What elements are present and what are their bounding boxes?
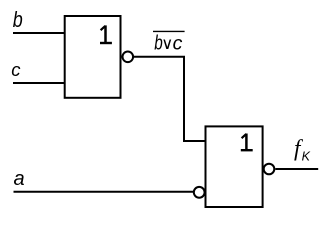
svg-text:c: c — [11, 59, 21, 80]
svg-text:c: c — [173, 33, 183, 55]
svg-text:a: a — [14, 168, 25, 190]
svg-text:b: b — [13, 7, 23, 32]
svg-text:K: K — [302, 149, 311, 163]
svg-text:∨: ∨ — [161, 35, 173, 53]
